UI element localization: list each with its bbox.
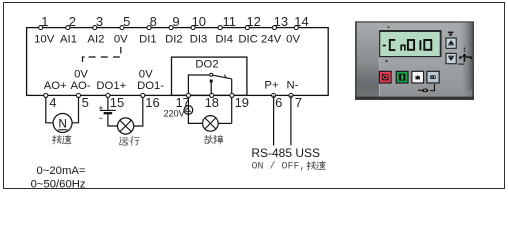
terminal 13 (24V) xyxy=(272,26,276,30)
battery + sign xyxy=(99,106,103,110)
button up arrow xyxy=(446,38,456,48)
svg-text:6: 6 xyxy=(275,95,282,110)
LCD segment n xyxy=(401,45,405,50)
terminal 5 (0V) xyxy=(120,26,124,30)
label 转速 xyxy=(52,135,71,144)
page border frame xyxy=(4,3,505,189)
wire AO+ to meter xyxy=(46,95,53,122)
DO2 relay box xyxy=(172,57,247,95)
svg-text:DI3: DI3 xyxy=(190,34,208,46)
terminal 8 (DI1) xyxy=(147,26,151,30)
svg-text:18: 18 xyxy=(205,95,219,110)
lamp run X xyxy=(120,120,131,131)
wire P+ down xyxy=(273,95,275,145)
dashed 0V link wire from terminal 5 to AO- xyxy=(83,47,121,62)
svg-text:24V: 24V xyxy=(261,34,282,46)
terminal 18 (DO2) xyxy=(210,93,214,97)
terminal 17 (DO2) xyxy=(186,93,190,97)
terminal 6 (P+) xyxy=(272,93,276,97)
wire 17 down through AC source to fault lamp xyxy=(188,95,202,123)
svg-text:19: 19 xyxy=(235,95,249,110)
svg-text:11: 11 xyxy=(222,14,236,29)
svg-text:0V: 0V xyxy=(74,69,88,81)
LCD segment 1 xyxy=(419,40,421,50)
panel face xyxy=(0,0,1,1)
svg-text:4: 4 xyxy=(49,95,56,110)
relay contact wire from 17 xyxy=(188,75,209,95)
terminal 5b (AO-) xyxy=(76,93,80,97)
relay actuator stem to terminal 18 xyxy=(210,83,212,96)
analog meter (speed indicator) xyxy=(53,114,72,133)
svg-text:AO+: AO+ xyxy=(44,80,67,92)
svg-text:15: 15 xyxy=(110,95,124,110)
jog icon above up button xyxy=(448,32,453,36)
terminal 3 (AI2) xyxy=(93,26,97,30)
svg-text:DIC: DIC xyxy=(238,34,257,46)
label 运行 xyxy=(119,136,139,145)
battery - sign xyxy=(99,117,102,119)
AC source loop glyph xyxy=(186,109,189,112)
svg-text:DI4: DI4 xyxy=(215,34,233,46)
lamp fault (故障) xyxy=(203,116,219,132)
LCD segment minus xyxy=(383,45,386,47)
label 故障 xyxy=(204,135,223,144)
wire terminal 19 down xyxy=(231,79,233,124)
wire fault lamp to 19 xyxy=(218,122,232,124)
button hand (white) xyxy=(412,71,424,83)
svg-text:0V: 0V xyxy=(139,69,153,81)
LCD display xyxy=(380,31,441,56)
function-path arrow icon xyxy=(458,48,472,65)
terminal 14 (0V) xyxy=(294,26,298,30)
relay arm tick xyxy=(225,75,227,79)
svg-text:16: 16 xyxy=(145,95,159,110)
svg-text:DO2: DO2 xyxy=(195,59,218,71)
terminal 15 (DO1+) xyxy=(106,93,110,97)
svg-text:0V: 0V xyxy=(114,34,128,46)
LCD segment 0 first xyxy=(408,40,414,50)
panel right shade xyxy=(0,0,1,1)
svg-text:P+: P+ xyxy=(264,80,279,92)
terminal 19 (DO2) xyxy=(230,93,234,97)
svg-text:0~20mA=: 0~20mA= xyxy=(37,165,86,177)
svg-text:ON / OFF,: ON / OFF, xyxy=(252,161,306,173)
svg-text:0~50/60Hz: 0~50/60Hz xyxy=(31,178,86,190)
relay pivot xyxy=(210,73,213,76)
svg-text:0V: 0V xyxy=(286,34,300,46)
battery positive plate xyxy=(100,109,116,111)
bracket under P button xyxy=(430,84,434,91)
svg-text:DO1-: DO1- xyxy=(137,80,164,92)
terminal 12 (DIC) xyxy=(245,26,249,30)
svg-text:N-: N- xyxy=(286,80,298,92)
wire meter to AO- xyxy=(72,95,78,122)
wire lamp to DO1- xyxy=(134,95,143,126)
terminal 4 (AO+) xyxy=(44,93,48,97)
meter underline xyxy=(58,129,67,131)
battery negative plate xyxy=(104,112,113,114)
terminal 16 (DO1-) xyxy=(141,93,145,97)
LCD right shadow xyxy=(440,31,442,57)
svg-text:17: 17 xyxy=(175,95,189,110)
terminal 7 (N-) xyxy=(289,93,293,97)
terminal 1 (10V) xyxy=(39,26,43,30)
svg-text:AI2: AI2 xyxy=(87,34,104,46)
panel left recessed column xyxy=(0,0,1,1)
svg-text:DI1: DI1 xyxy=(139,34,157,46)
panel indicator dot below display xyxy=(386,60,388,62)
label 转速 small xyxy=(307,161,325,170)
relay moving arm xyxy=(213,75,232,79)
button O (stop) red xyxy=(379,71,391,83)
terminal 9 (DI2) xyxy=(169,26,173,30)
panel indicator dot top xyxy=(388,26,390,28)
lamp fault X xyxy=(205,118,216,129)
svg-text:AI1: AI1 xyxy=(60,34,77,46)
lamp run (运行) xyxy=(118,118,134,134)
wire DO1+ down to battery xyxy=(107,95,109,110)
AC source 220V xyxy=(184,106,193,115)
LCD segment C xyxy=(390,40,396,50)
terminal 2 (AI1) xyxy=(66,26,70,30)
button down arrow xyxy=(446,53,456,63)
svg-text:5: 5 xyxy=(82,95,89,110)
wire N- down xyxy=(290,95,292,145)
button I (start) green xyxy=(396,71,408,83)
svg-text:10V: 10V xyxy=(34,34,55,46)
relay actuator square xyxy=(210,80,213,83)
button P (gray) xyxy=(427,71,439,83)
svg-text:RS-485 USS: RS-485 USS xyxy=(251,146,320,160)
terminal 11 (DI4) xyxy=(218,26,222,30)
svg-text:DI2: DI2 xyxy=(165,34,183,46)
svg-text:DO1+: DO1+ xyxy=(96,80,126,92)
svg-text:AO-: AO- xyxy=(70,80,90,92)
inverter terminal box outline xyxy=(27,28,329,96)
wire battery to lamp xyxy=(108,113,118,126)
hand icon under buttons xyxy=(418,88,429,92)
LCD segment 0 second xyxy=(424,40,431,50)
LCD top shadow xyxy=(379,30,441,32)
BOP operator panel frame xyxy=(355,21,474,100)
page background xyxy=(0,0,508,192)
terminal 10 (DI3) xyxy=(191,26,195,30)
svg-text:7: 7 xyxy=(295,95,302,110)
svg-text:N: N xyxy=(58,118,66,130)
